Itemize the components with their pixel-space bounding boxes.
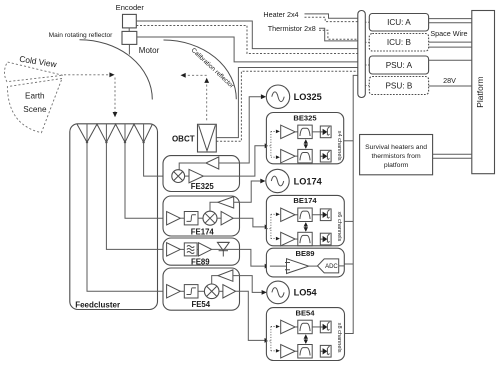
wire FE54 filter to mixer [198,290,204,292]
wire FE325 LO amp output to mixer [179,163,206,170]
svg-text:FE325: FE325 [191,182,215,191]
wire survival box to platform pair [433,154,472,158]
BE54 amplifier 1 [281,320,295,334]
BE54 amplifier 2 [281,345,295,359]
BE54 detector 2 [320,345,331,357]
connector panel bar [358,11,366,98]
FE89 bandpass filter [184,243,197,256]
wire FE89 amp1 to filter [180,248,184,250]
wire BE325 amp1-filter1 [295,131,298,133]
FE54 LO amplifier (left-pointing) [218,270,233,281]
wire PSU A to platform [429,59,472,61]
feedcluster box [70,124,158,310]
wire FE89 output to BE89 input [212,249,270,268]
svg-text:x8 channels: x8 channels [336,323,342,353]
svg-text:x4 channels: x4 channels [336,131,342,161]
svg-text:FE174: FE174 [191,228,215,237]
BE54 input split dotted [267,325,280,353]
BE174 amplifier 1 [281,208,295,222]
wire FE174 LO amp to LO174 [234,179,266,203]
svg-text:Scene: Scene [23,105,47,114]
wire FE325 output to BE325 input [203,143,270,176]
wire dashed arrow down into feedcluster [113,78,118,118]
BE174 amplifier 2 [281,232,295,246]
wire FE174 mixer to amp2 [217,217,221,219]
BE54 detector 1 [320,321,331,333]
FE325 LO amplifier (left-pointing) [206,157,219,169]
wire heater 2x4 solid [305,14,358,18]
wire panel to PSU A dotted [365,64,369,66]
BE325 detector 1 [320,126,331,138]
wire panel to PSU B dotted [365,85,369,87]
FE89 box [163,238,240,265]
LO325 oscillator [266,85,289,108]
wire BE325 filter1-detector1 [312,131,320,133]
svg-text:OBCT: OBCT [172,134,195,143]
BE89 box [266,248,344,277]
svg-text:thermistors from: thermistors from [372,153,421,160]
FE54 filter [184,285,198,298]
cold view beam outline [4,62,62,82]
PSU A box [369,56,428,74]
wire FE54 LO amp output to mixer [212,276,218,284]
wire BE89 to bus [345,263,354,265]
wire heater 2x4 dashed [305,17,358,21]
wire dashed arrow up from OBCT [204,78,209,121]
svg-text:Main rotating reflector: Main rotating reflector [49,32,114,39]
BE89 amplifier [285,259,309,274]
FE325 amplifier [189,169,203,182]
wire motor to reflector stem [128,44,130,54]
FE54 amplifier 2 [223,285,236,298]
feed horn junction dots [86,141,145,143]
wire PSU B to platform [429,85,472,87]
wire FE54 mixer to amp2 [219,290,223,292]
wire FE325 LO amp to LO325 [219,94,266,163]
svg-text:PSU: A: PSU: A [386,61,413,70]
wire FE54 amp1 to filter [180,290,184,292]
BE325 box [266,113,343,164]
svg-text:BE174: BE174 [293,196,317,205]
wire BE325 amp2-filter2 [295,155,298,157]
wire panel to ICU B dotted [365,41,369,43]
BE54 filter 1 [298,320,312,334]
svg-text:ICU: A: ICU: A [387,18,411,27]
BE174 detector 2 [320,233,331,245]
OBCT box [198,124,217,152]
svg-text:LO54: LO54 [294,288,318,298]
svg-text:Space Wire: Space Wire [430,29,467,38]
FE325 mixer [172,170,185,183]
OBCT horn V [199,125,216,151]
svg-text:Thermistor 2x8: Thermistor 2x8 [268,24,316,33]
svg-text:Survival heaters and: Survival heaters and [365,144,427,151]
BE325 amplifier 1 [281,125,295,139]
wire FE54 output to BE54 input [236,291,270,343]
wire ICU A to platform pair [429,19,472,23]
BE174 filter 2 [298,232,312,246]
BE89 ADC [318,259,339,273]
FE54 mixer [204,284,219,299]
FE89 detector diode [217,242,229,256]
svg-text:ADC: ADC [325,264,338,270]
wire BE54 amp1-filter1 [295,326,298,328]
BE174 detector 1 [320,209,331,221]
wire OBCT heater solid [216,68,357,138]
FE174 amplifier 1 [167,212,181,225]
wire BE325 to bus [344,140,353,142]
BE325 filter 1 [298,125,312,139]
ICU A box [369,14,428,32]
survival heaters box [360,135,433,175]
BE325 filter 2 [298,149,312,163]
svg-text:Feedcluster: Feedcluster [75,300,120,309]
wire encoder to connector solid [136,21,357,49]
BE174 input split dotted [267,213,280,241]
svg-text:28V: 28V [443,76,456,85]
BE174 coupling double arrow [304,222,308,232]
wire thermistor 2x8 dashed [319,30,358,39]
wire cold view dashed arrow [64,72,115,77]
wire ICU B to platform pair [429,42,472,47]
wire BE89 amp to ADC [309,265,318,267]
FE174 box [163,196,240,236]
wire FE174 amp1 to filter [180,217,184,219]
earth scene beam outline [7,79,62,133]
wire BE174 amp1-filter1 [295,214,298,216]
wire feed 4 to FE325 [144,143,172,177]
wire BE54 amp2-filter2 [295,350,298,352]
encoder box [123,14,137,28]
svg-text:Encoder: Encoder [116,3,145,12]
FE174 LO amplifier (left-pointing) [218,197,234,208]
FE89 amplifier 2 [198,243,211,256]
BE325 amplifier 2 [281,149,295,163]
wire BE output bus vertical [345,75,358,333]
wire OBCT thermistor dashed [216,71,357,141]
feed horn zigzag [77,124,152,142]
BE325 input split dotted [267,130,280,159]
svg-text:LO325: LO325 [294,92,322,102]
wire BE174 amp2-filter2 [295,238,298,240]
wire FE325 mixer to amp [185,175,189,177]
FE174 amplifier 2 [221,212,233,225]
platform box [472,11,495,174]
svg-text:BE89: BE89 [296,249,315,258]
svg-text:Motor: Motor [139,46,160,55]
FE54 amplifier 1 [167,285,181,298]
calibration reflector arc [164,40,237,99]
wire FE174 output to BE174 input [233,218,270,229]
FE89 amplifier 1 [167,243,181,256]
FE54 box [163,268,240,310]
BE174 filter 1 [298,208,312,222]
PSU B box [369,77,428,95]
wire feed 1 to FE54 [87,143,167,292]
svg-text:Platform: Platform [475,76,485,107]
wire calibration reflector dashed arrow left [181,73,207,78]
FE325 box [163,156,240,192]
wire feed 2 to FE89 [106,143,166,250]
BE325 coupling double arrow [304,139,308,149]
BE54 filter 2 [298,345,312,359]
wire encoder-motor stem [128,28,130,32]
main rotating reflector arc [80,40,153,100]
BE54 box [266,308,344,361]
svg-text:Heater 2x4: Heater 2x4 [263,10,298,19]
wire FE54 LO amp to LO54 [233,276,267,295]
wire panel to ICU A dotted [365,21,369,23]
wire motor to connector [137,37,358,62]
wire BE174 filter1-detector1 [312,214,320,216]
svg-text:BE325: BE325 [293,113,317,122]
FE174 mixer [203,211,217,225]
svg-text:FE89: FE89 [191,257,210,266]
svg-text:Earth: Earth [25,91,45,100]
wire feed 3 to FE174 [125,143,167,219]
svg-text:ICU: B: ICU: B [387,38,412,47]
svg-text:FE54: FE54 [191,300,210,309]
feed horn center lines [87,124,144,142]
wire BE54 filter1-detector1 [312,326,320,328]
BE54 coupling double arrow [304,334,308,344]
wire thermistor 2x8 solid [319,28,358,41]
BE325 detector 2 [320,150,331,162]
LO174 oscillator [266,169,289,192]
ICU B box [369,34,428,52]
svg-text:platform: platform [384,162,409,169]
wire BE89 ADC output [339,265,345,267]
BE174 box [266,195,344,245]
wire FE89 filter to amp2 [197,248,198,250]
LO54 oscillator [267,281,290,304]
wire BE89 input line [270,265,287,267]
wire FE174 filter to mixer [198,217,203,219]
svg-text:x6 channels: x6 channels [336,211,342,241]
wire FE174 LO amp output to mixer [210,202,218,211]
svg-text:PSU: B: PSU: B [385,81,412,90]
wire BE174 to bus [345,220,354,222]
svg-text:LO174: LO174 [294,176,323,186]
motor box [122,31,137,44]
FE174 filter [184,212,198,225]
wire encoder to connector dashed [136,26,357,54]
svg-text:BE54: BE54 [296,308,316,317]
